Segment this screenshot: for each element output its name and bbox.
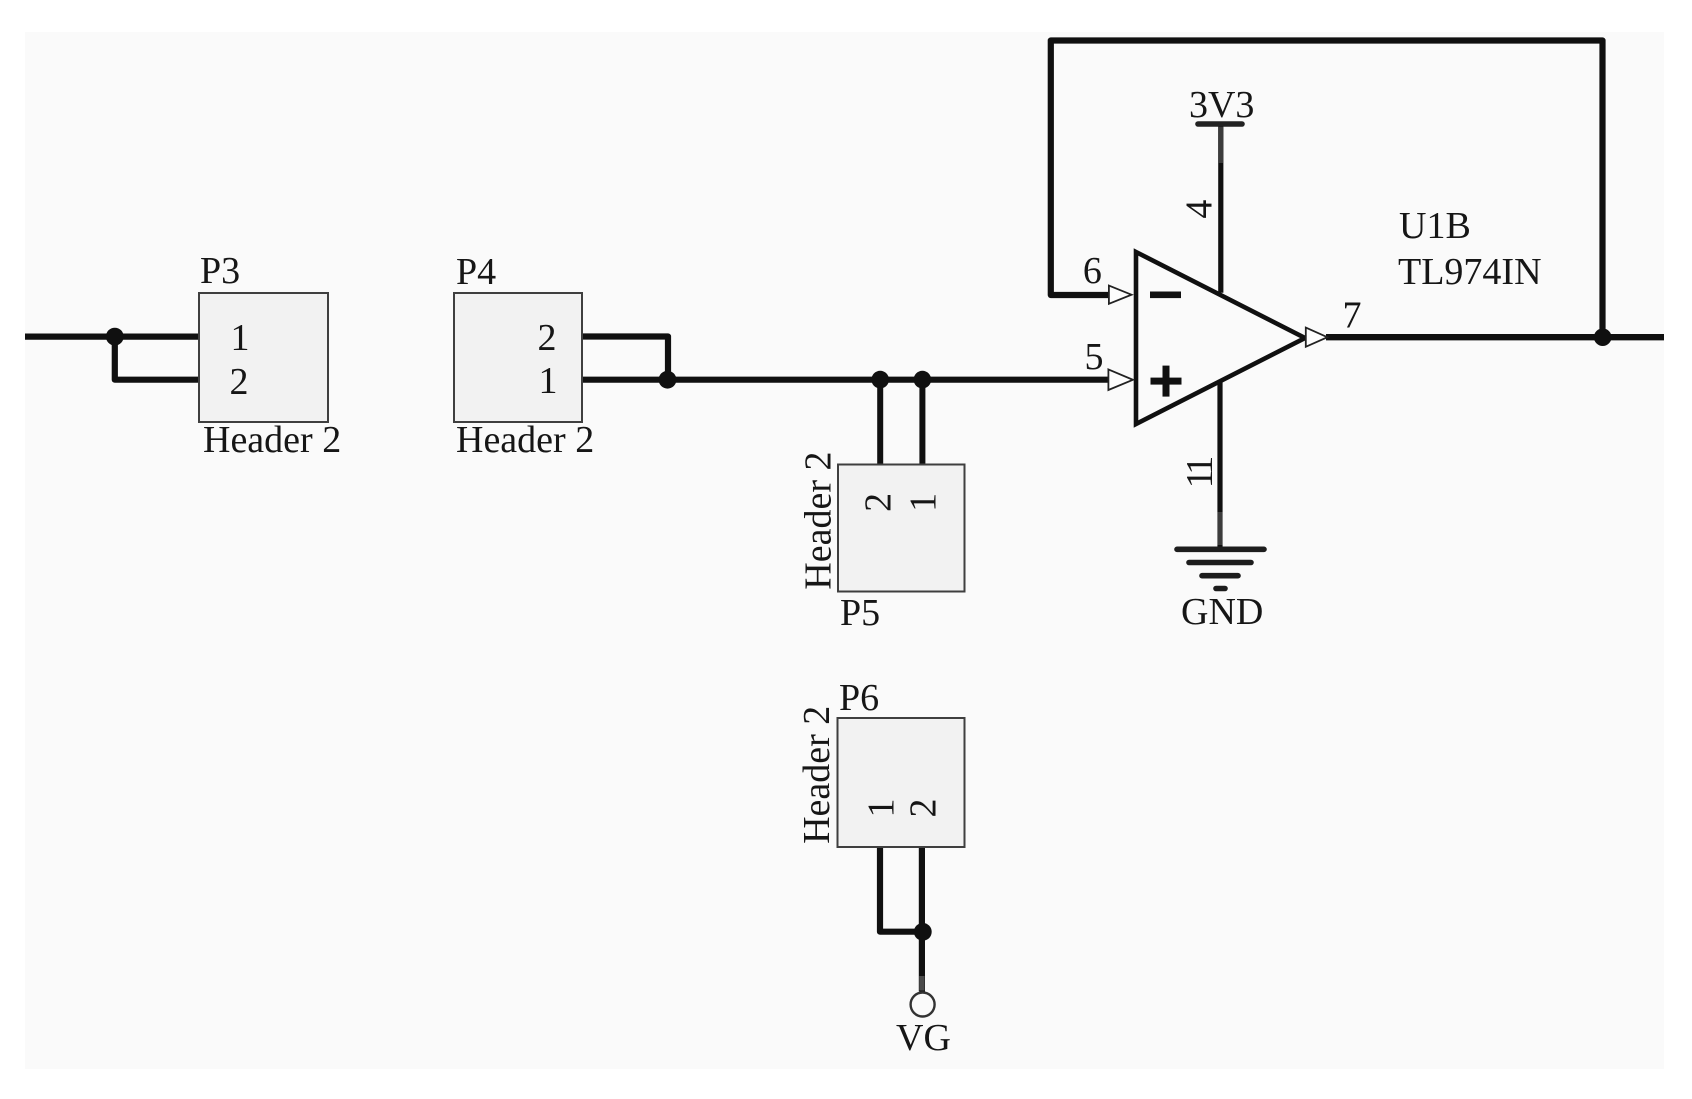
node C junction dot P5 pin2 xyxy=(871,371,889,389)
wire pin 11 lead to GND xyxy=(1217,380,1222,546)
pin 6 arrowhead xyxy=(1109,286,1132,304)
wire left input to P3 pin 1 xyxy=(25,334,199,340)
svg-text:GND: GND xyxy=(1181,591,1263,633)
svg-text:1: 1 xyxy=(539,360,558,402)
node E output junction dot xyxy=(1594,328,1612,346)
gray lower segment of VG lead xyxy=(919,976,924,991)
op-amp U1 triangle body xyxy=(1136,252,1305,424)
svg-text:2: 2 xyxy=(230,361,249,403)
svg-text:5: 5 xyxy=(1085,336,1104,378)
svg-text:2: 2 xyxy=(857,493,899,512)
svg-text:3V3: 3V3 xyxy=(1189,84,1254,126)
node A junction dot left of P3 xyxy=(106,328,124,346)
svg-text:P5: P5 xyxy=(840,592,880,634)
svg-text:Header 2: Header 2 xyxy=(796,706,838,844)
svg-text:2: 2 xyxy=(538,317,557,359)
svg-text:6: 6 xyxy=(1083,250,1102,292)
pin 5 arrowhead xyxy=(1108,369,1133,390)
pin 7 output arrowhead xyxy=(1306,328,1328,347)
wire pin 4 lead from 3V3 xyxy=(1218,126,1223,293)
wire P6 pin 2 lead down to VG xyxy=(919,847,925,992)
svg-text:2: 2 xyxy=(903,799,945,818)
wire P6 pin 1 lead down and right xyxy=(880,847,922,932)
svg-text:TL974IN: TL974IN xyxy=(1398,251,1542,293)
svg-text:7: 7 xyxy=(1343,295,1362,337)
wire junction down to P3 pin 2 xyxy=(115,337,199,380)
op-amp minus input marker xyxy=(1150,292,1181,299)
connector P6 xyxy=(838,718,965,847)
wire feedback loop output to pin 6 xyxy=(1051,41,1603,338)
op-amp plus input marker xyxy=(1151,378,1182,385)
connector P4 xyxy=(454,293,582,422)
wire P4 pin 2 loop to net xyxy=(582,337,668,380)
svg-text:1: 1 xyxy=(861,799,903,818)
node D junction dot P5 pin1 xyxy=(914,371,932,389)
VG open terminal circle xyxy=(911,993,935,1017)
wire P5 pin 1 lead xyxy=(919,380,925,466)
wire output pin 7 to right edge xyxy=(1326,334,1664,340)
svg-text:P4: P4 xyxy=(456,251,496,293)
svg-text:U1B: U1B xyxy=(1399,205,1471,247)
gray upper segment of 3V3 lead xyxy=(1218,127,1223,163)
svg-text:1: 1 xyxy=(231,317,250,359)
svg-text:VG: VG xyxy=(896,1017,951,1059)
wire P5 pin 2 lead xyxy=(877,380,883,466)
wire P4 pin 1 to op-amp pin 5 xyxy=(582,377,1109,383)
svg-text:11: 11 xyxy=(1179,458,1221,489)
svg-text:Header 2: Header 2 xyxy=(203,419,341,461)
svg-text:Header 2: Header 2 xyxy=(797,451,839,589)
power port 3V3 bar xyxy=(1198,121,1242,127)
svg-text:P3: P3 xyxy=(200,250,240,292)
svg-text:P6: P6 xyxy=(839,677,879,719)
ground symbol bars xyxy=(1177,546,1264,552)
gray lower segment of GND lead xyxy=(1218,512,1223,545)
connector P5 xyxy=(838,465,965,592)
node B junction dot right of P4 xyxy=(659,371,677,389)
svg-text:4: 4 xyxy=(1178,200,1220,219)
node F junction dot P6 xyxy=(914,923,932,941)
svg-text:1: 1 xyxy=(903,493,945,512)
connector P3 xyxy=(199,293,328,422)
svg-text:Header 2: Header 2 xyxy=(456,419,594,461)
